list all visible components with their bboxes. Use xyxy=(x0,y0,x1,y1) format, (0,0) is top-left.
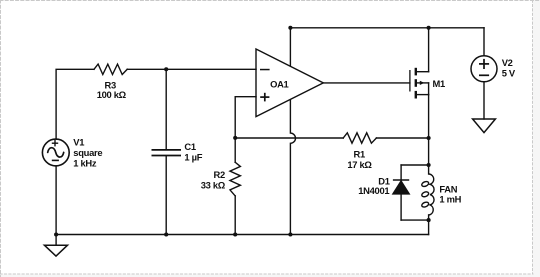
svg-text:1N4001: 1N4001 xyxy=(358,185,389,196)
wire drain up to top rail xyxy=(428,28,430,72)
resistor R3 xyxy=(94,64,127,74)
ground symbol right xyxy=(473,119,496,133)
wire R3 to op-amp inverting input xyxy=(127,68,256,70)
svg-text:17 kΩ: 17 kΩ xyxy=(347,159,372,170)
junction R1 right xyxy=(427,136,431,140)
svg-text:5 V: 5 V xyxy=(502,68,516,79)
ground symbol left xyxy=(44,235,67,257)
label V1 xyxy=(73,137,102,169)
wire V1 top to R3 xyxy=(56,69,94,139)
svg-text:33 kΩ: 33 kΩ xyxy=(201,179,226,190)
diode D1 branch xyxy=(393,165,429,220)
source V1 xyxy=(42,139,69,166)
outer page area tint xyxy=(533,0,540,277)
print margin bottom dashed xyxy=(0,273,533,275)
label OA1 xyxy=(270,78,288,89)
wire op-amp output to gate xyxy=(323,82,410,84)
label M1 xyxy=(433,78,446,89)
svg-text:1 µF: 1 µF xyxy=(184,152,202,163)
wire C1 top stub xyxy=(165,69,167,149)
junction V- bottom xyxy=(288,232,292,236)
svg-text:1 mH: 1 mH xyxy=(439,194,461,205)
wire fan bottom to ground rail xyxy=(428,220,430,234)
wire C1 bottom stub xyxy=(165,156,167,234)
label R2 xyxy=(201,169,226,190)
source V2 xyxy=(471,56,497,82)
label D1 xyxy=(358,176,390,197)
label V2 xyxy=(502,57,516,79)
svg-text:OA1: OA1 xyxy=(270,78,288,89)
top rail xyxy=(290,27,484,29)
junction top rail left xyxy=(288,26,292,30)
wire R1 right segment xyxy=(376,137,428,139)
wire source down to R1 node xyxy=(428,95,430,138)
op-amp OA1 xyxy=(256,49,323,117)
label R1 xyxy=(347,149,372,170)
wire V2 top stub xyxy=(483,28,485,56)
wire V2 bottom to ground xyxy=(483,82,485,119)
wire R1 left segment xyxy=(235,137,343,139)
wire op-amp V+ supply stub xyxy=(289,28,291,66)
junction drain top xyxy=(427,26,431,30)
svg-text:FAN: FAN xyxy=(439,183,457,194)
wire op-amp noninverting input xyxy=(235,97,256,138)
junction D1 bottom xyxy=(427,218,431,222)
svg-text:C1: C1 xyxy=(184,141,195,152)
svg-text:V1: V1 xyxy=(73,137,84,148)
inductor FAN xyxy=(421,165,434,220)
wire source node down to fan top xyxy=(428,138,430,165)
svg-text:square: square xyxy=(73,147,102,158)
junction C1 top xyxy=(164,67,168,71)
label FAN xyxy=(439,183,461,204)
junction noninverting node xyxy=(233,136,237,140)
label C1 xyxy=(184,141,202,163)
transistor M1 xyxy=(410,68,429,99)
junction R2 bottom xyxy=(233,232,237,236)
junction V1-gnd xyxy=(54,232,58,236)
svg-text:V2: V2 xyxy=(502,57,513,68)
capacitor C1 xyxy=(152,150,182,156)
svg-text:M1: M1 xyxy=(433,78,446,89)
print margin right dashed xyxy=(532,0,534,274)
wire V1 bottom to ground rail xyxy=(55,166,57,235)
wire op-amp V- supply stub with hop over R1 wire xyxy=(290,100,295,235)
resistor R1 xyxy=(343,133,376,143)
svg-text:1 kHz: 1 kHz xyxy=(73,158,97,169)
junction D1 top xyxy=(427,163,431,167)
resistor R2 vertical xyxy=(230,138,240,235)
ground rail bottom xyxy=(56,234,429,236)
page border dashed top xyxy=(0,0,540,2)
page border dashed left xyxy=(0,0,2,277)
junction C1 bottom xyxy=(164,232,168,236)
svg-text:100 kΩ: 100 kΩ xyxy=(97,89,127,100)
label R3 xyxy=(97,80,127,101)
